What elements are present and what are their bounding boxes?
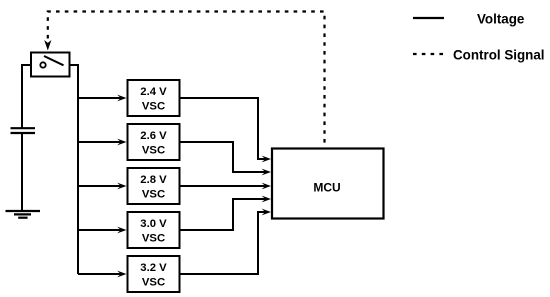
svg-text:Control Signal: Control Signal [453, 47, 545, 62]
block MCU [272, 149, 384, 219]
wire 3.0V VSC to MCU [180, 199, 266, 230]
svg-text:Voltage: Voltage [477, 11, 524, 26]
switch pivot contact [40, 62, 45, 67]
arrowhead into MCU pin3 [262, 183, 271, 190]
arrowhead into MCU pin4 [262, 196, 271, 203]
arrowhead into 2.6V VSC [117, 139, 126, 146]
block 2.4 V VSC [128, 80, 180, 116]
battery plate bottom [11, 132, 36, 134]
wire switch output bus [70, 65, 79, 274]
arrowhead into 2.8V VSC [117, 183, 126, 190]
wire 2.8V VSC to MCU [180, 185, 266, 187]
block 2.8 V VSC [128, 168, 180, 204]
wire bus to 2.8V VSC [78, 185, 121, 187]
arrowhead into 3.0V VSC [117, 227, 126, 234]
svg-text:VSC: VSC [142, 189, 165, 201]
arrowhead into switch [44, 40, 51, 51]
svg-text:2.4 V: 2.4 V [140, 86, 167, 98]
wire 3.2V VSC to MCU [180, 212, 266, 274]
svg-text:VSC: VSC [142, 145, 165, 157]
wire battery to switch [22, 65, 31, 128]
wire bus to 3.2V VSC [78, 273, 121, 275]
wire bus to 2.4V VSC [78, 97, 121, 99]
control signal dashed wire from MCU top to switch [48, 12, 325, 149]
svg-text:3.0 V: 3.0 V [140, 218, 167, 230]
wire 2.6V VSC to MCU [180, 142, 266, 172]
ground [6, 211, 41, 218]
arrowhead into MCU pin2 [262, 169, 271, 176]
svg-text:3.2 V: 3.2 V [140, 262, 167, 274]
wire battery to ground [21, 133, 23, 211]
svg-text:2.8 V: 2.8 V [140, 174, 167, 186]
wire bus to 3.0V VSC [78, 229, 121, 231]
arrowhead into MCU pin1 [262, 156, 271, 163]
switch lever [44, 56, 64, 65]
svg-text:2.6 V: 2.6 V [140, 130, 167, 142]
legend Control Signal dashed line sample [413, 53, 444, 55]
svg-text:VSC: VSC [142, 101, 165, 113]
switch S1 box [31, 53, 70, 77]
arrowhead into 3.2V VSC [117, 271, 126, 278]
legend Voltage solid line sample [413, 17, 444, 19]
arrowhead into 2.4V VSC [117, 95, 126, 102]
svg-text:MCU: MCU [313, 180, 340, 194]
block 3.2 V VSC [128, 256, 180, 292]
arrowhead into MCU pin5 [262, 209, 271, 216]
svg-text:VSC: VSC [142, 233, 165, 245]
svg-text:VSC: VSC [142, 277, 165, 289]
wire 2.4V VSC to MCU [180, 98, 266, 159]
battery plate top [11, 127, 36, 129]
block 3.0 V VSC [128, 212, 180, 248]
wire bus to 2.6V VSC [78, 141, 121, 143]
block 2.6 V VSC [128, 124, 180, 160]
